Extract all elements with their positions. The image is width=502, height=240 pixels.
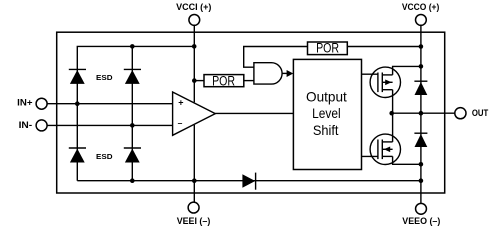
AND gate U2 (254, 63, 282, 84)
svg-text:ESD: ESD (96, 152, 113, 161)
svg-text:Output: Output (306, 88, 347, 104)
POR block 2 (VCCO monitor) (308, 42, 348, 55)
Output Level Shift block (293, 59, 361, 169)
wire VCCO/VEEO vertical rail (420, 25, 422, 203)
svg-text:VEEI (–): VEEI (–) (177, 216, 211, 226)
svg-text:VCCI (+): VCCI (+) (176, 2, 211, 12)
junction dot IN- / ESD column 2 (130, 123, 135, 128)
junction dot bottom rail / VEEO (419, 178, 424, 183)
IC boundary rectangle (57, 32, 445, 193)
pin IN+ terminal circle (36, 98, 47, 109)
arrowhead AND output into level shift (287, 70, 294, 77)
svg-text:VCCO (+): VCCO (+) (402, 2, 440, 12)
POR block 1 (VCCI monitor) (204, 75, 244, 87)
wire VCCO-POR branch to AND gate top input (244, 47, 308, 68)
svg-text:VEEO (–): VEEO (–) (402, 216, 440, 226)
ESD diode D4 (VEE to IN-) (124, 148, 141, 163)
svg-text:IN-: IN- (19, 120, 33, 130)
pin OUT terminal circle (455, 108, 466, 119)
svg-text:IN+: IN+ (17, 97, 32, 107)
wire POR2 to VCCO rail (347, 46, 421, 48)
wire level shift to Q1 gate (362, 73, 378, 75)
wire op-amp output to level shift (215, 112, 293, 114)
wire VCCI to POR1 (194, 80, 204, 82)
junction dot top rail / VCCI (192, 44, 197, 49)
wire Q2 drain to output node (392, 113, 394, 142)
body diode D6 (VEEO to output) (414, 133, 427, 147)
wire output node to OUT pin (392, 112, 455, 114)
junction dot VEEO rail / Q2 source (419, 162, 424, 167)
wire bottom VEE rail (77, 180, 421, 182)
wire Q1 drain to VCCO rail (393, 66, 421, 75)
pin VEEO terminal circle (416, 203, 427, 214)
transistor Q2 (N-channel pull-down MOSFET) (370, 134, 400, 164)
ESD diode D3 (VEE to IN+) (69, 148, 86, 163)
junction dot output node / Q1-Q2 (389, 111, 394, 116)
svg-text:Shift: Shift (313, 122, 339, 138)
junction dot VCCO / POR2 wire (419, 44, 424, 49)
wire IN- to op-amp inverting input (47, 124, 173, 126)
op-amp U1 input comparator (173, 92, 216, 135)
wire IN+ to op-amp noninverting input (47, 103, 173, 105)
junction dot bottom rail / VEEI (192, 178, 197, 183)
svg-text:ESD: ESD (96, 73, 113, 82)
svg-text:Level: Level (312, 105, 341, 121)
wire level shift to Q2 gate (362, 155, 378, 157)
pin VEEI terminal circle (188, 202, 199, 213)
body diode D5 (output to VCCO) (414, 81, 427, 95)
wire VCCI vertical (circle to op-amp top) (193, 25, 195, 102)
diode D7 (VEEI to VEEO on bottom rail) (242, 173, 255, 190)
junction dot IN+ / ESD column 1 (75, 101, 80, 106)
transistor Q1 (P-channel pull-up MOSFET) (370, 67, 400, 97)
svg-text:OUT: OUT (472, 108, 489, 118)
junction dot top rail / ESD column 2 (130, 44, 135, 49)
svg-text:POR: POR (316, 41, 339, 56)
wire VEE vertical (op-amp bottom to VEEI circle) (193, 125, 195, 202)
svg-text:–: – (178, 118, 183, 128)
wire Q2 source to VEEO rail (393, 156, 421, 164)
junction dot VCCI / POR1 (192, 78, 197, 83)
junction dot VCCO / Q1 drain (419, 64, 424, 69)
junction dot bottom rail / ESD column 2 (130, 178, 135, 183)
pin IN- terminal circle (36, 120, 47, 131)
wire top-left ESD rail (77, 46, 194, 180)
ESD diode D1 (IN+ to VCCI) (69, 69, 86, 84)
wire Q1 source to output node (392, 90, 394, 114)
ESD diode D2 (IN- to VCCI) (124, 69, 141, 84)
wire ESD column 2 (131, 46, 133, 180)
svg-text:POR: POR (212, 74, 235, 89)
junction dot output node / body diodes (419, 111, 424, 116)
pin VCCI terminal circle (189, 15, 200, 26)
wire AND output (282, 72, 287, 74)
svg-text:+: + (178, 97, 183, 107)
pin VCCO terminal circle (416, 15, 427, 26)
wire POR1 to AND gate (244, 80, 254, 82)
